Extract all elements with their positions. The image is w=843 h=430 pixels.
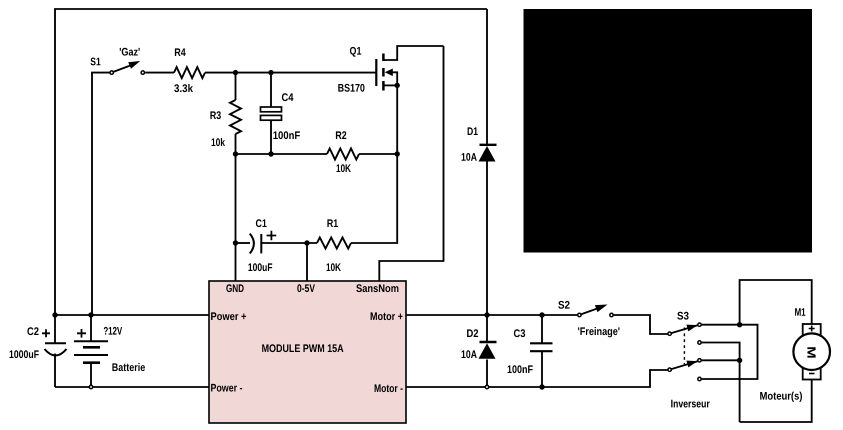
label S3 — [677, 312, 688, 320]
label 10A D1 — [462, 153, 477, 161]
node throw1/motor loop — [737, 322, 742, 327]
resistor R4 — [174, 67, 205, 78]
wire D2 bottom — [486, 360, 488, 388]
black image placeholder — [524, 9, 813, 253]
label 0-5V — [297, 284, 315, 292]
wire battery bottom stub — [90, 363, 92, 387]
wire Power- — [55, 386, 209, 388]
resistor R2 — [327, 149, 359, 160]
label Moteur(s) — [760, 392, 802, 402]
wire C2 top — [54, 315, 56, 343]
Q1 bulk arrow — [385, 69, 393, 77]
switch S3 top arm — [671, 325, 697, 333]
wire C1 left — [236, 242, 251, 244]
label 10A D2 — [462, 350, 477, 358]
label M1 — [795, 308, 805, 316]
node D2/Motor- ring — [485, 385, 488, 388]
wire C3 top — [541, 315, 543, 343]
node battery/Power+ — [88, 312, 93, 317]
label Power- — [211, 384, 242, 392]
motor plus terminal — [809, 326, 815, 332]
node C4 row y154 — [268, 151, 273, 156]
label MODULE — [262, 344, 343, 352]
motor M1 body — [803, 324, 821, 380]
label GND — [226, 284, 243, 292]
diode D2 — [480, 341, 497, 343]
wire outer border top and left — [55, 9, 487, 315]
label D2 — [467, 329, 478, 337]
node R4/C4 — [268, 70, 273, 75]
label Q1 — [350, 47, 361, 57]
capacitor C2 plates — [45, 342, 66, 344]
wire R3 bottom to GND node — [235, 134, 237, 243]
node C3/Motor+ — [539, 312, 544, 317]
node Q1 source — [395, 83, 400, 88]
capacitor C4 plates — [261, 107, 282, 112]
wire C2 bottom — [54, 354, 56, 388]
wire C4 bottom — [270, 120, 272, 154]
label S2 — [558, 301, 569, 309]
motor M letter — [807, 347, 815, 357]
wire battery top stub — [90, 315, 92, 341]
wire Motor+ to S2 — [406, 314, 577, 316]
label 10K R1 — [327, 263, 341, 271]
resistor R3 — [230, 100, 241, 134]
wire GND pin — [235, 243, 237, 281]
diode D1 — [480, 144, 497, 146]
node C2/Power+ — [52, 312, 57, 317]
node R2/source line — [395, 151, 400, 156]
label 100nF C4 — [273, 131, 300, 139]
wire S3 throw1 to motor loop — [702, 325, 758, 379]
switch S2 contacts — [578, 313, 614, 316]
wire S3 throw2 cross down — [702, 343, 740, 423]
switch S2 arm — [581, 308, 598, 314]
wire R2 right to source line — [359, 153, 397, 155]
label C4 — [282, 93, 294, 101]
wire motor loop top — [740, 280, 812, 325]
wire 0-5V pin — [306, 243, 308, 281]
capacitor C3 plates — [530, 342, 553, 344]
C2 plus sign — [42, 329, 50, 337]
label Gaz — [120, 48, 140, 56]
label 1000uF — [10, 350, 39, 358]
node R4/R3 — [233, 70, 238, 75]
label 100nF C3 — [508, 365, 533, 373]
wire C1 right to 0-5V node — [261, 242, 317, 244]
wire drain loop to SansNom — [379, 46, 443, 281]
label R3 — [210, 111, 221, 119]
node C3/Motor- — [539, 384, 544, 389]
label Inverseur — [671, 400, 709, 408]
switch S1 arm — [113, 65, 131, 72]
wire source line down to R1 — [351, 85, 397, 243]
label R1 — [327, 219, 338, 227]
label R2 — [336, 131, 346, 139]
label Freinage — [578, 327, 619, 337]
label 3.3k — [174, 84, 193, 92]
label 12V — [104, 327, 122, 335]
wire C3 bottom — [541, 351, 543, 387]
switch S3 bottom arm — [671, 361, 697, 369]
label SansNom — [356, 284, 398, 292]
label S1 — [91, 58, 101, 66]
node battery/Power- ring — [89, 385, 92, 388]
wire Power+ — [55, 314, 209, 316]
wire S2 to S3 top pole — [614, 315, 668, 334]
label 100uF — [248, 263, 272, 271]
wire S1 throw stub — [145, 72, 174, 74]
label 10k — [212, 138, 226, 146]
label Motor+ — [371, 312, 403, 320]
S3 gang dashed link — [683, 328, 685, 365]
label D1 — [468, 127, 478, 135]
capacitor C1 plates — [250, 234, 254, 254]
label C1 — [256, 219, 267, 227]
motor minus terminal — [809, 373, 815, 375]
resistor R1 — [317, 238, 351, 249]
node C1/GND — [233, 240, 238, 245]
wire R3 top — [235, 73, 237, 100]
node R3 row y154 — [233, 151, 238, 156]
wire R4 to gate — [205, 72, 376, 74]
wire right border to D1 cathode — [486, 9, 488, 144]
label C3 — [514, 329, 525, 337]
wire motor loop bottom — [740, 380, 812, 423]
label C2 — [27, 327, 38, 335]
transistor Q1 BS170 — [376, 46, 443, 91]
battery plus sign — [77, 329, 86, 338]
node C1/0-5V — [304, 240, 309, 245]
C1 plus sign — [267, 231, 277, 241]
label 10K R2 — [337, 164, 351, 172]
label Motor- — [375, 384, 403, 392]
label Batterie — [112, 363, 144, 371]
label BS170 — [338, 84, 364, 92]
wire node row y154 — [236, 153, 328, 155]
label Power+ — [211, 312, 246, 320]
wire D2 top — [486, 315, 488, 342]
switch S1 contacts — [110, 71, 145, 74]
node D1/Motor+ — [484, 312, 489, 317]
wire S1 vertical to Power+ — [92, 73, 110, 315]
wire D1 anode down to Motor+ — [486, 162, 488, 316]
wire Motor- — [406, 370, 668, 387]
battery plates — [74, 340, 108, 342]
node throw3/motor loop — [737, 358, 742, 363]
switch S3 contacts — [668, 323, 701, 381]
wire C4 top — [270, 73, 272, 107]
label R4 — [175, 48, 186, 56]
module PWM box — [209, 281, 406, 423]
wire S3 throw3 — [702, 359, 740, 361]
